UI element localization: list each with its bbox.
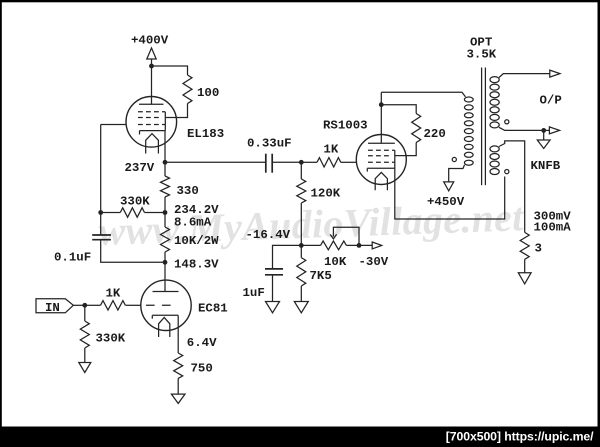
RS1003 screen grid g2 [368, 155, 390, 157]
svg-text:KNFB: KNFB [531, 159, 561, 173]
node label 6.4V [187, 336, 217, 350]
O/P terminal arrow top [550, 70, 560, 77]
svg-text:IN: IN [45, 301, 60, 315]
junction dot O/P return [541, 128, 546, 133]
EL183 heater filament [146, 134, 159, 154]
OPT feedback winding [490, 146, 499, 175]
resistor 3 (feedback) [520, 232, 529, 259]
svg-text:EC81: EC81 [198, 301, 228, 315]
ground under 750 [171, 394, 185, 403]
svg-text:EL183: EL183 [187, 127, 224, 141]
wire resistor 330 to 234.2V node [164, 197, 166, 213]
value label 330 [177, 184, 199, 198]
RS1003 cathode [367, 168, 395, 171]
svg-text:220: 220 [424, 127, 446, 141]
wire resistor 220 to RS1003 screen grid [395, 143, 416, 156]
wire grid node to resistor 120K [300, 162, 302, 179]
+450V supply arrow [444, 182, 454, 191]
wire resistor 100 to EL183 screen grid g2 [165, 104, 187, 118]
wire secondary bottom to O/P return [499, 127, 542, 130]
value label 330K [120, 195, 150, 209]
potentiometer 10K track [321, 241, 347, 250]
current label 8.6mA [174, 215, 212, 229]
wire -16.4V node to resistor 7K5 [300, 245, 302, 257]
wire resistor 1K to EC81 grid [126, 304, 142, 306]
wire input node to resistor 330K [84, 305, 86, 321]
wire OPT primary to +450V [449, 165, 465, 182]
node label 148.3V [174, 258, 219, 272]
tube label EC81 [198, 301, 228, 315]
node +400V supply label [131, 34, 169, 48]
wire capacitor 1uF to ground [272, 275, 274, 302]
value label 1uF [243, 286, 265, 300]
wire resistor 1K to RS1003 grid [341, 161, 357, 163]
svg-text:O/P: O/P [540, 94, 562, 108]
O/P terminal arrow bottom [544, 127, 560, 134]
svg-text:1K: 1K [106, 286, 121, 300]
ground under 330K [79, 363, 91, 373]
wire resistor 750 to ground [177, 378, 179, 394]
svg-text:RS1003: RS1003 [323, 118, 368, 132]
junction dot 237V node [163, 160, 168, 165]
tube label EL183 [187, 127, 224, 141]
value label 330K [96, 332, 126, 346]
junction dot input node [82, 303, 87, 308]
terminal label -30V [359, 255, 389, 269]
EL183 plate [139, 103, 164, 105]
RS1003 heater filament [375, 172, 387, 190]
svg-text:148.3V: 148.3V [174, 258, 219, 272]
wire potentiometer to -30V [346, 244, 372, 246]
OPT primary phase dot [452, 157, 456, 161]
svg-text:3.5K: 3.5K [467, 48, 497, 62]
EC81 plate [153, 291, 179, 293]
wire resistor 3 to ground [524, 259, 526, 272]
resistor 100 (screen dropper) [183, 75, 192, 104]
wire EL183 grid g1 to left bias network [101, 124, 126, 126]
node label -16.4V [246, 228, 291, 242]
wire feedback winding top to resistor 3 [499, 141, 525, 233]
EL183 cathode [140, 131, 166, 135]
junction dot plate node [379, 102, 384, 107]
resistor 750 (cathode bias) [174, 353, 183, 378]
EL183 suppressor grid g3 [138, 111, 165, 113]
RS1003 plate lead [380, 92, 382, 143]
wire -16.4V node to potentiometer [301, 244, 320, 246]
svg-text:750: 750 [191, 362, 213, 376]
RS1003 suppressor grid g3 [368, 149, 395, 151]
svg-text:100: 100 [197, 86, 219, 100]
svg-text:10K/2W: 10K/2W [174, 234, 219, 248]
svg-text:330: 330 [177, 184, 199, 198]
wire 237V node to resistor 330 [164, 162, 166, 176]
value label 120K [311, 187, 341, 201]
svg-text:-16.4V: -16.4V [246, 228, 291, 242]
EC81 control grid [146, 304, 171, 306]
EC81 cathode lead [177, 315, 179, 353]
svg-text:7K5: 7K5 [310, 269, 332, 283]
svg-text:[700x500] https://upic.me/: [700x500] https://upic.me/ [446, 429, 594, 443]
pentode U3 RS1003 envelope [356, 135, 406, 185]
svg-text:237V: 237V [125, 161, 155, 175]
wire input node to resistor 1K [85, 304, 101, 306]
value label 10K [324, 255, 347, 269]
resistor 10K/2W [161, 227, 170, 252]
-30V terminal arrow [372, 242, 382, 249]
svg-text:10K: 10K [324, 255, 347, 269]
supply label +450V [427, 195, 465, 209]
wire -16.4V node to capacitor 1uF [273, 245, 302, 269]
potentiometer 10K wiper arrow [330, 227, 359, 245]
OPT primary winding [464, 97, 473, 165]
input terminal IN [36, 299, 73, 313]
wire secondary top to O/P [499, 74, 550, 78]
svg-text:3: 3 [535, 242, 542, 256]
svg-text:0.1uF: 0.1uF [54, 251, 91, 265]
resistor 1K (RS1003 grid stopper) [317, 158, 341, 167]
capacitor 1uF [265, 269, 283, 275]
ground under 1uF [266, 302, 280, 313]
value label 750 [191, 362, 213, 376]
RS1003 control grid g1 [368, 161, 395, 163]
ground under 7K5 [294, 302, 308, 313]
wire plate node to resistor 220 [381, 105, 416, 114]
wire O/P return to ground [543, 130, 545, 140]
svg-text:+450V: +450V [427, 195, 465, 209]
wire grid node to resistor 1K [301, 161, 317, 163]
resistor 7K5 [297, 258, 306, 286]
wire 237V node to coupling capacitor [165, 161, 266, 163]
wire resistor 7K5 to ground [300, 286, 302, 302]
wire 148.3V node to EC81 plate [164, 262, 166, 291]
value label 0.1uF [54, 251, 91, 265]
svg-text:330K: 330K [120, 195, 150, 209]
EL183 cathode lead to 237V node [164, 131, 166, 163]
ground KNFB [537, 140, 550, 149]
svg-text:6.4V: 6.4V [187, 336, 217, 350]
value label 100 [197, 86, 219, 100]
wire capacitor 0.1uF to 148.3V node [101, 240, 165, 263]
svg-text:330K: 330K [96, 332, 126, 346]
RS1003 plate [368, 142, 395, 144]
tube label RS1003 [323, 118, 368, 132]
OPT secondary winding [490, 77, 499, 128]
resistor 220 (screen) [412, 114, 421, 143]
wire left rail to resistor 330K [101, 212, 121, 214]
net label KNFB [531, 159, 561, 173]
wire +400V node to resistor 100 [152, 66, 188, 75]
resistor 330K (feedback) [120, 208, 144, 217]
junction dot 148.3V node [163, 260, 168, 265]
svg-text:1K: 1K [323, 142, 338, 156]
svg-text:8.6mA: 8.6mA [174, 215, 212, 229]
wire resistor 10K/2W to 148.3V node [164, 252, 166, 262]
resistor 330K (grid leak) [80, 321, 89, 348]
wire 234.2V node to resistor 10K/2W [164, 213, 166, 228]
value label 3 [535, 242, 542, 256]
junction dot -16.4V node [299, 243, 304, 248]
EL183 control grid g1 [138, 124, 165, 126]
svg-text:100mA: 100mA [534, 221, 572, 235]
value label 10K/2W [174, 234, 219, 248]
junction dot RS1003 grid node [299, 160, 304, 165]
transformer OPT label [470, 36, 493, 50]
value label 1K [106, 286, 121, 300]
output label O/P [540, 94, 562, 108]
feedback label 100mA [534, 221, 572, 235]
wire +400V node to plate of EL183 [151, 66, 153, 104]
junction dot 234.2V node [163, 210, 168, 215]
EC81 cathode [152, 315, 178, 318]
value label 0.33uF [247, 136, 292, 150]
junction dot wiper tie [357, 243, 362, 248]
terminal label IN [45, 301, 60, 315]
wire RS1003 plate to OPT primary [381, 92, 465, 97]
svg-text:120K: 120K [311, 187, 341, 201]
svg-text:1uF: 1uF [243, 286, 265, 300]
junction dot at +400V node [149, 64, 154, 69]
capacitor 0.33uF coupling [266, 154, 272, 173]
EL183 screen grid g2 [138, 117, 160, 119]
transformer OPT core [482, 68, 486, 186]
RS1003 g3-cathode strap [394, 150, 396, 168]
pentode U1 EL183 envelope [126, 97, 177, 148]
+400V supply arrow [147, 48, 156, 64]
OPT secondary phase dot [505, 120, 509, 124]
value label 1K [323, 142, 338, 156]
svg-text:+400V: +400V [131, 34, 169, 48]
EC81 heater filament [159, 318, 170, 338]
wire left bias rail down to capacitor 0.1uF [100, 125, 102, 236]
resistor 330 [161, 176, 170, 197]
node label 237V [125, 161, 155, 175]
wire IN to grid node [73, 304, 85, 306]
resistor 1K (grid stopper) [101, 301, 126, 310]
transformer value label 3.5K [467, 48, 497, 62]
svg-text:0.33uF: 0.33uF [247, 136, 292, 150]
value label 220 [424, 127, 446, 141]
ground under resistor 3 [518, 273, 531, 284]
value label 7K5 [310, 269, 332, 283]
resistor 120K (grid leak) [297, 179, 306, 203]
node label 234.2V [174, 203, 219, 217]
svg-text:-30V: -30V [359, 255, 389, 269]
junction dot left rail at 330K [98, 210, 103, 215]
wire capacitor 0.33uF to grid node [272, 161, 301, 163]
RS1003 cathode lead to feedback winding [395, 168, 505, 219]
wire resistor 330K to cathode node [145, 212, 166, 214]
EL183 g3-cathode strap [164, 112, 166, 131]
OPT feedback phase dot [505, 170, 509, 174]
capacitor 0.1uF [92, 235, 111, 240]
feedback labels 300mV [534, 209, 572, 223]
wire resistor 120K to -16.4V node [300, 203, 302, 245]
wire resistor 330K to ground [84, 348, 86, 363]
triode U2 EC81 envelope [141, 280, 191, 330]
